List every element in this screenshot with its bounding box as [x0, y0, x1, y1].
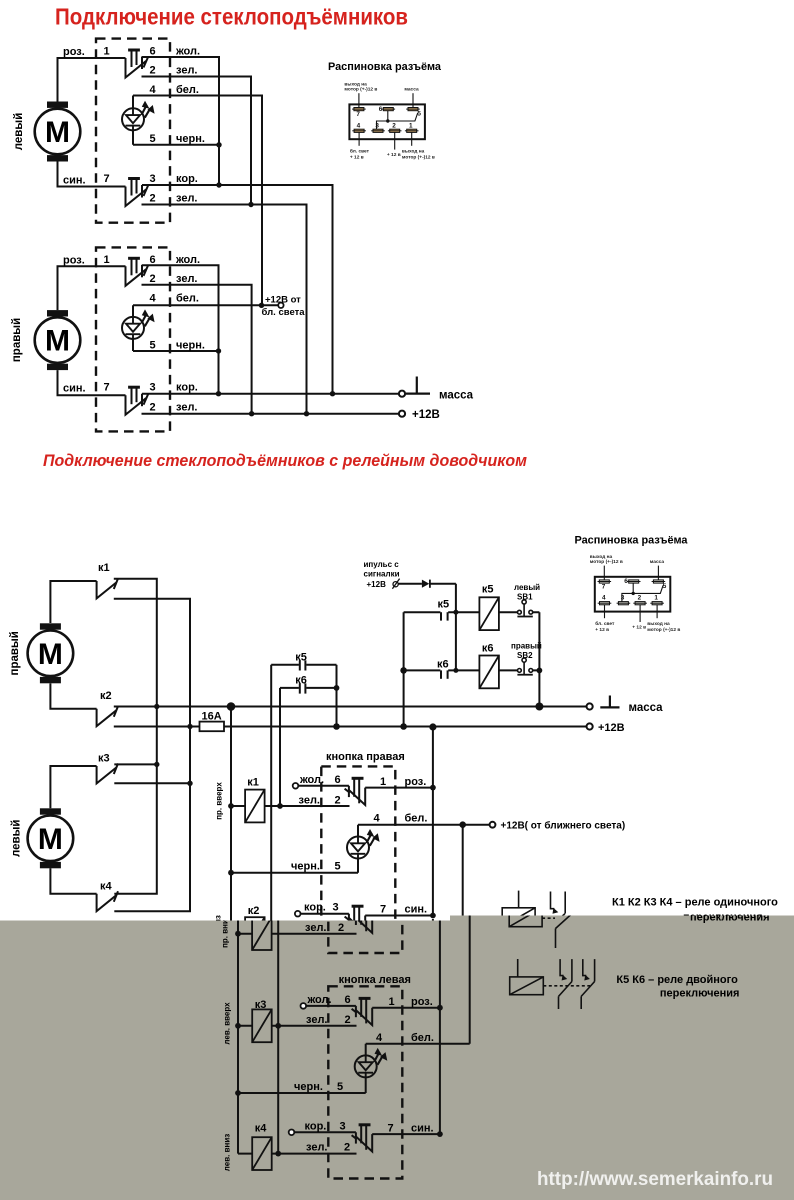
+12V terminal top — [399, 411, 405, 417]
svg-text:Подключение стеклоподъёмников: Подключение стеклоподъёмников — [55, 4, 408, 30]
svg-text:роз.: роз. — [63, 46, 85, 58]
wire motor2 top to switch — [58, 266, 126, 310]
bottom schematic white part — [9, 535, 778, 1179]
wire zhol block2 — [142, 265, 219, 393]
ground symbol top — [406, 377, 430, 394]
svg-text:5: 5 — [150, 133, 156, 145]
+12V bl.sveta terminal block2 — [278, 303, 283, 308]
wire zhol block1 — [142, 57, 219, 185]
+12V wire (zel-b block2) — [142, 413, 400, 415]
dashed switch-unit box 2 — [96, 247, 170, 431]
svg-text:3: 3 — [150, 382, 156, 394]
svg-text:4: 4 — [150, 293, 157, 305]
svg-text:Распиновка разъёма: Распиновка разъёма — [328, 61, 442, 73]
svg-text:6: 6 — [150, 46, 156, 58]
wire kor block1 — [142, 185, 333, 394]
LED2 stubs — [132, 305, 134, 351]
wire bel block2 to +12V terminal — [133, 304, 278, 306]
svg-text:зел.: зел. — [176, 402, 197, 414]
svg-text:1: 1 — [104, 46, 110, 58]
svg-text:Подключение стеклоподъёмников: Подключение стеклоподъёмников с релейным… — [43, 452, 527, 470]
svg-text:син.: син. — [63, 383, 86, 395]
svg-text:4: 4 — [150, 84, 157, 96]
wire zel-top block2 — [142, 285, 252, 414]
svg-text:1: 1 — [104, 254, 110, 266]
switch 1-1 — [126, 50, 149, 78]
wire chern block2 — [133, 350, 219, 352]
svg-text:роз.: роз. — [63, 255, 85, 267]
switch 2-2 — [126, 387, 149, 415]
svg-text:зел.: зел. — [176, 193, 197, 205]
svg-text:правый: правый — [11, 318, 23, 362]
LED block2 — [122, 309, 155, 339]
svg-text:бел.: бел. — [176, 84, 199, 96]
svg-text:+12В от: +12В от — [265, 295, 301, 306]
LED1 stubs — [132, 96, 134, 145]
svg-text:2: 2 — [150, 402, 156, 414]
svg-text:кор.: кор. — [176, 173, 198, 185]
wire bel block1 — [133, 96, 262, 306]
svg-text:3: 3 — [150, 173, 156, 185]
svg-text:левый: левый — [13, 113, 25, 151]
svg-text:зел.: зел. — [176, 273, 197, 285]
svg-text:7: 7 — [104, 173, 110, 185]
svg-text:http://www.semerkainfo.ru: http://www.semerkainfo.ru — [537, 1168, 773, 1190]
dashed switch-unit box 1 — [96, 39, 170, 223]
wire zel-bottom block1 — [142, 205, 307, 414]
svg-text:зел.: зел. — [176, 65, 197, 77]
gray pasted band — [0, 916, 794, 1200]
svg-text:2: 2 — [150, 273, 156, 285]
svg-text:7: 7 — [104, 382, 110, 394]
svg-text:бел.: бел. — [176, 293, 199, 305]
svg-text:черн.: черн. — [176, 133, 205, 145]
svg-text:бл. света: бл. света — [262, 307, 306, 318]
wire motor2 bottom to switch — [58, 370, 126, 395]
bottom schematic gray part shifted — [16, 535, 785, 1179]
wire motor1 top to switch — [58, 58, 126, 102]
svg-text:6: 6 — [150, 254, 156, 266]
svg-text:2: 2 — [150, 193, 156, 205]
block1 wire/pin labels — [63, 46, 205, 205]
svg-text:син.: син. — [63, 175, 86, 187]
svg-text:масса: масса — [439, 390, 474, 402]
massa terminal top — [399, 391, 405, 397]
LED block1 — [122, 101, 155, 131]
svg-text:+12В: +12В — [412, 409, 440, 421]
motor right (block2) — [35, 310, 81, 370]
svg-text:кор.: кор. — [176, 382, 198, 394]
svg-text:2: 2 — [150, 65, 156, 77]
wire chern block1 — [133, 144, 219, 146]
wire zel-top block1 — [142, 77, 252, 205]
massa wire (kor block2) — [142, 393, 399, 395]
svg-text:черн.: черн. — [176, 340, 205, 352]
svg-text:5: 5 — [150, 340, 156, 352]
junction dots top section — [216, 142, 221, 147]
svg-text:жол.: жол. — [175, 46, 200, 58]
switch 2-1 — [126, 258, 149, 286]
wire motor1 bottom to switch — [58, 162, 126, 187]
motor left — [35, 102, 81, 162]
block2 wire/pin labels — [63, 254, 205, 414]
svg-text:жол.: жол. — [175, 254, 200, 266]
switch 1-2 — [126, 179, 149, 207]
